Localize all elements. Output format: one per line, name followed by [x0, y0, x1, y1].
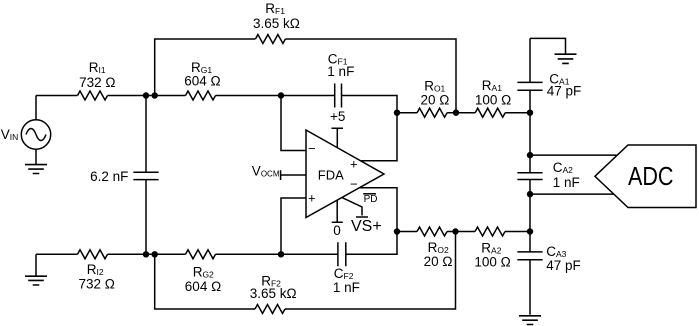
svg-text:3.65 kΩ: 3.65 kΩ — [253, 16, 300, 31]
svg-text:FDA: FDA — [318, 168, 344, 183]
svg-text:−: − — [308, 141, 316, 156]
svg-text:PD: PD — [364, 194, 378, 205]
svg-text:1 nF: 1 nF — [333, 280, 360, 295]
svg-text:47 pF: 47 pF — [547, 84, 582, 99]
svg-text:CA2: CA2 — [553, 160, 573, 175]
svg-text:20 Ω: 20 Ω — [421, 93, 450, 108]
svg-text:RG2: RG2 — [193, 265, 214, 280]
svg-text:604 Ω: 604 Ω — [185, 279, 221, 294]
svg-text:47 pF: 47 pF — [546, 258, 581, 273]
svg-text:RI1: RI1 — [89, 60, 106, 75]
svg-text:732 Ω: 732 Ω — [79, 277, 115, 292]
svg-text:604 Ω: 604 Ω — [184, 74, 220, 89]
svg-text:+5: +5 — [330, 109, 345, 124]
svg-text:VS+: VS+ — [351, 218, 382, 235]
svg-text:1 nF: 1 nF — [553, 175, 580, 190]
svg-text:RA2: RA2 — [481, 240, 501, 255]
svg-text:RO1: RO1 — [424, 78, 445, 93]
svg-text:CF2: CF2 — [334, 266, 354, 281]
svg-text:732 Ω: 732 Ω — [79, 75, 115, 90]
svg-text:RF1: RF1 — [265, 1, 285, 16]
svg-text:1 nF: 1 nF — [327, 64, 354, 79]
svg-text:6.2 nF: 6.2 nF — [90, 169, 128, 184]
svg-text:3.65 kΩ: 3.65 kΩ — [250, 286, 297, 301]
svg-text:RI2: RI2 — [87, 262, 104, 277]
svg-text:20 Ω: 20 Ω — [424, 254, 453, 269]
svg-text:RO2: RO2 — [428, 240, 449, 255]
svg-text:VIN: VIN — [1, 127, 19, 142]
svg-text:−: − — [350, 177, 358, 192]
svg-text:VOCM: VOCM — [252, 163, 280, 178]
svg-text:+: + — [350, 157, 358, 172]
svg-text:100 Ω: 100 Ω — [475, 93, 511, 108]
svg-text:100 Ω: 100 Ω — [474, 254, 510, 269]
svg-text:+: + — [308, 190, 316, 205]
svg-text:0: 0 — [333, 223, 341, 238]
svg-text:CA3: CA3 — [546, 244, 566, 259]
svg-text:RA1: RA1 — [482, 78, 502, 93]
svg-text:ADC: ADC — [628, 161, 674, 191]
